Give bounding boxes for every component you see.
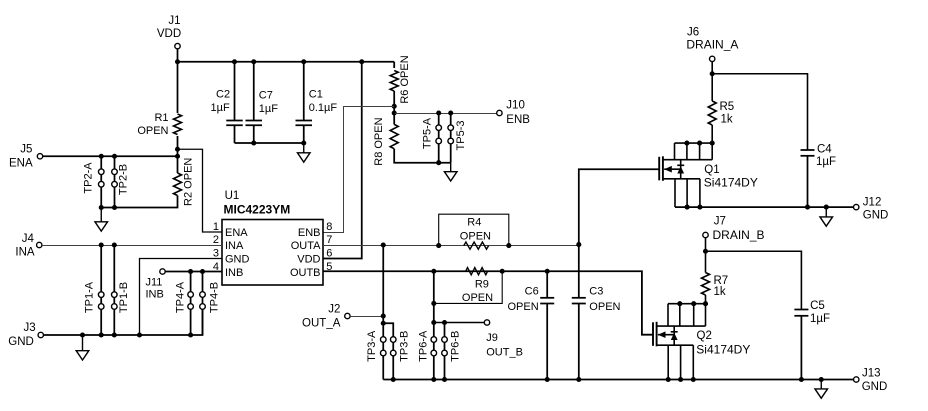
svg-text:J13: J13 bbox=[862, 368, 881, 380]
node J7 bbox=[703, 249, 708, 254]
connector J12 GND bbox=[854, 197, 889, 222]
svg-text:DRAIN_A: DRAIN_A bbox=[686, 38, 738, 52]
svg-text:GND: GND bbox=[8, 336, 34, 348]
node bus-C6 bbox=[545, 377, 550, 382]
node ENB-R6 bbox=[392, 104, 397, 109]
connector J7 DRAIN_B bbox=[703, 216, 765, 242]
svg-text:1µF: 1µF bbox=[810, 313, 830, 325]
node bus-TP6B bbox=[442, 377, 447, 382]
connector J2 OUT_A bbox=[302, 303, 350, 329]
svg-text:J4: J4 bbox=[22, 233, 35, 245]
testpoint TP3-B bbox=[390, 337, 396, 380]
wire VDD to R1 bbox=[177, 62, 179, 113]
node OUTB-C6 bbox=[545, 269, 550, 274]
ground below TP2 bbox=[95, 208, 108, 232]
svg-text:1: 1 bbox=[213, 221, 219, 233]
svg-text:ENA: ENA bbox=[9, 158, 33, 170]
svg-text:Si4174DY: Si4174DY bbox=[696, 342, 750, 356]
wire J6 to C4 bbox=[712, 74, 807, 150]
node INA-TP1A bbox=[99, 242, 104, 247]
node ENA-TP2A bbox=[99, 154, 104, 159]
node R9-box-TP6 bbox=[431, 301, 436, 306]
svg-text:TP2-A: TP2-A bbox=[82, 162, 94, 194]
svg-text:GND: GND bbox=[863, 210, 889, 222]
svg-text:TP1-A: TP1-A bbox=[84, 281, 96, 313]
node TP2A-gnd bbox=[99, 205, 104, 210]
wire GND bus bbox=[44, 309, 203, 335]
node OUTA-TP3 bbox=[381, 242, 386, 247]
svg-text:OUT_A: OUT_A bbox=[302, 318, 341, 330]
node Q2-rail-3 bbox=[703, 301, 708, 306]
wire R8 leads bbox=[393, 113, 395, 124]
connector J6 DRAIN_A bbox=[686, 27, 738, 62]
resistor R1 bbox=[174, 114, 182, 135]
transistor Q1 Si4174DY bbox=[659, 143, 712, 207]
svg-text:ENA: ENA bbox=[225, 227, 248, 239]
svg-text:R5: R5 bbox=[720, 101, 735, 113]
connector J1 VDD bbox=[157, 15, 181, 49]
connector J4 INA bbox=[15, 233, 42, 259]
svg-text:OUTB: OUTB bbox=[290, 267, 321, 279]
svg-text:2: 2 bbox=[213, 234, 219, 246]
svg-text:7: 7 bbox=[326, 234, 332, 246]
node VDD-C7 bbox=[251, 59, 256, 64]
svg-text:J3: J3 bbox=[24, 322, 36, 334]
wire OUTB row bbox=[323, 271, 653, 334]
node TP5-3 top bbox=[448, 110, 453, 115]
svg-text:TP3-B: TP3-B bbox=[398, 331, 410, 362]
node TP5-A bottom bbox=[436, 160, 441, 165]
node rail-gnd1 bbox=[824, 205, 829, 210]
node INA-TP1B bbox=[112, 242, 117, 247]
connector J5 ENA bbox=[9, 144, 43, 170]
resistor R9 bbox=[466, 268, 488, 275]
svg-text:U1: U1 bbox=[225, 190, 240, 202]
wire J7 to node bbox=[705, 238, 707, 273]
svg-text:C4: C4 bbox=[817, 144, 832, 156]
transistor Q2 Si4174DY bbox=[653, 304, 706, 380]
connector J3 GND bbox=[8, 322, 43, 348]
node INB-TP4A bbox=[188, 269, 193, 274]
wire INA row bbox=[42, 245, 222, 247]
node OUTB-R9R bbox=[500, 269, 505, 274]
wire J1 to VDD bus bbox=[177, 49, 179, 62]
svg-text:C6: C6 bbox=[525, 285, 539, 297]
svg-text:OPEN: OPEN bbox=[462, 292, 493, 304]
label R1 bbox=[137, 112, 168, 137]
testpoint TP4-B bbox=[200, 272, 206, 336]
svg-text:Q2: Q2 bbox=[697, 330, 712, 342]
node Q1-rail-2 bbox=[697, 141, 702, 146]
wire INB row bbox=[165, 271, 222, 273]
node VDD-C1 bbox=[301, 59, 306, 64]
testpoint TP2-A bbox=[98, 156, 104, 207]
op-amp U1 MIC4223YM box bbox=[222, 220, 323, 286]
svg-text:INA: INA bbox=[225, 240, 244, 252]
ground below TP5 bbox=[444, 163, 457, 181]
connector J13 GND bbox=[854, 368, 888, 394]
label Q1 bbox=[704, 164, 758, 190]
wire Q1 source rail bbox=[675, 206, 854, 208]
svg-text:C1: C1 bbox=[309, 89, 323, 101]
node J9-TP6B bbox=[442, 320, 447, 325]
svg-text:Si4174DY: Si4174DY bbox=[704, 176, 758, 190]
svg-text:J10: J10 bbox=[506, 100, 525, 112]
svg-text:GND: GND bbox=[225, 253, 250, 265]
label R5 bbox=[720, 101, 735, 126]
svg-text:J7: J7 bbox=[714, 216, 726, 228]
node Q1-src-1 bbox=[685, 205, 690, 210]
node VDD-J1 bbox=[175, 59, 180, 64]
svg-text:6: 6 bbox=[326, 248, 332, 260]
node GND-TP4A bbox=[188, 332, 193, 337]
svg-text:TP5-A: TP5-A bbox=[421, 117, 433, 149]
wire J9 stub bbox=[434, 322, 485, 324]
node bus-C3 bbox=[576, 377, 581, 382]
svg-text:R7: R7 bbox=[714, 275, 729, 287]
svg-text:C7: C7 bbox=[259, 90, 273, 102]
testpoint TP3-A bbox=[380, 337, 386, 380]
svg-text:R1: R1 bbox=[154, 112, 168, 124]
wire J2 stub bbox=[350, 316, 383, 318]
svg-text:C3: C3 bbox=[589, 285, 603, 297]
label R4 bbox=[460, 217, 491, 243]
svg-text:TP1-B: TP1-B bbox=[118, 282, 130, 313]
node VDD-pin6 bbox=[359, 59, 364, 64]
resistor R5 bbox=[708, 101, 716, 125]
node R4-left bbox=[436, 243, 441, 248]
node VDD-C2 bbox=[232, 59, 237, 64]
node Q1-rail-1 bbox=[684, 141, 689, 146]
wire J6 to node bbox=[711, 62, 713, 101]
capacitor C1 bbox=[296, 62, 338, 143]
svg-text:TP4-B: TP4-B bbox=[208, 282, 220, 313]
node bus-TP6A bbox=[431, 377, 436, 382]
capacitor C2 bbox=[211, 62, 243, 143]
svg-text:1µF: 1µF bbox=[211, 102, 230, 114]
wire R6 to node bbox=[393, 91, 395, 113]
node OUTB-R9L bbox=[431, 269, 436, 274]
ground below Q1 rail bbox=[820, 207, 833, 226]
node TP2B-gnd bbox=[112, 205, 117, 210]
svg-text:DRAIN_B: DRAIN_B bbox=[713, 228, 765, 242]
wire GND pin3 bbox=[140, 259, 223, 336]
svg-text:J9: J9 bbox=[486, 332, 498, 344]
wire ENB to J10 bbox=[394, 113, 497, 115]
node C1-bottom bbox=[301, 140, 306, 145]
jumper box R9 bbox=[434, 271, 502, 303]
label R9 bbox=[462, 279, 493, 305]
testpoint TP2-B bbox=[112, 156, 118, 207]
svg-text:Q1: Q1 bbox=[704, 164, 719, 176]
svg-text:1k: 1k bbox=[714, 286, 726, 298]
node bus-Q2src-1 bbox=[666, 377, 671, 382]
ground below Q2 bus bbox=[815, 380, 828, 399]
svg-text:R2 OPEN: R2 OPEN bbox=[183, 158, 195, 206]
connector J11 INB bbox=[146, 269, 166, 301]
node GND-TP1B bbox=[112, 332, 117, 337]
svg-text:VDD: VDD bbox=[157, 28, 181, 40]
resistor R6 bbox=[390, 71, 398, 92]
node GND-sym bbox=[80, 332, 85, 337]
svg-text:ENB: ENB bbox=[506, 114, 530, 126]
svg-text:OPEN: OPEN bbox=[508, 301, 539, 313]
svg-text:R8 OPEN: R8 OPEN bbox=[373, 117, 385, 165]
svg-text:R4: R4 bbox=[467, 217, 481, 229]
svg-text:TP5-3: TP5-3 bbox=[455, 121, 467, 151]
svg-text:J2: J2 bbox=[328, 303, 340, 315]
svg-text:R9: R9 bbox=[475, 279, 489, 291]
wire R9 box left / TP6 feed bbox=[433, 271, 435, 322]
node GND-TP1A bbox=[99, 332, 104, 337]
node ENA-TP2B bbox=[112, 154, 117, 159]
wire ENA row bbox=[43, 155, 178, 157]
wire R1 to ENA node bbox=[177, 136, 179, 156]
wire R5 to Q1 drain rail bbox=[711, 125, 713, 143]
svg-text:1µF: 1µF bbox=[816, 156, 836, 168]
svg-text:INB: INB bbox=[146, 289, 164, 301]
node GND-pin3 bbox=[137, 332, 142, 337]
resistor R7 bbox=[702, 273, 710, 296]
svg-text:8: 8 bbox=[326, 221, 332, 233]
wire R7 to Q2 drain rail bbox=[705, 295, 707, 304]
svg-text:C5: C5 bbox=[810, 300, 825, 312]
testpoint TP6-A bbox=[431, 323, 437, 380]
jumper box R4 bbox=[439, 214, 509, 245]
svg-text:3: 3 bbox=[213, 248, 219, 260]
node bus-TP3B bbox=[391, 377, 396, 382]
svg-text:TP3-A: TP3-A bbox=[366, 330, 378, 362]
svg-text:INB: INB bbox=[225, 267, 243, 279]
svg-text:J12: J12 bbox=[863, 197, 882, 209]
wire J7 to C5 bbox=[706, 251, 802, 309]
wire OUT_A drop bbox=[382, 245, 384, 340]
node ENB-TP5 bbox=[392, 110, 397, 115]
node C7-bottom bbox=[251, 140, 256, 145]
svg-text:TP4-A: TP4-A bbox=[175, 281, 187, 313]
wire OUTA riser to Q1 gate bbox=[579, 169, 659, 245]
wire VDD to pin6 bbox=[323, 62, 362, 259]
node bus-C5 bbox=[799, 377, 804, 382]
testpoint TP4-A bbox=[188, 272, 194, 336]
node Q1-src-2 bbox=[697, 205, 702, 210]
svg-text:TP6-A: TP6-A bbox=[418, 330, 430, 362]
svg-text:OPEN: OPEN bbox=[460, 230, 491, 242]
wire R2 bottom to TP2 bbox=[101, 196, 177, 208]
node J9-TP6A bbox=[431, 320, 436, 325]
svg-text:0.1µF: 0.1µF bbox=[309, 102, 338, 114]
testpoint TP6-B bbox=[442, 337, 448, 380]
node bus-Q2src-3 bbox=[691, 377, 696, 382]
connector J9 OUT_B bbox=[484, 320, 523, 359]
svg-text:1k: 1k bbox=[721, 114, 733, 126]
wire TP3-B branch bbox=[383, 323, 393, 336]
node Q1-rail-3 bbox=[710, 141, 715, 146]
wire OUTA row bbox=[323, 245, 579, 247]
testpoint TP5-A bbox=[436, 113, 442, 163]
svg-text:TP2-B: TP2-B bbox=[118, 164, 130, 195]
capacitor C5 bbox=[794, 300, 830, 379]
node Q2-rail-2 bbox=[691, 301, 696, 306]
svg-text:C2: C2 bbox=[216, 89, 230, 101]
node INB-TP4B bbox=[200, 269, 205, 274]
svg-text:MIC4223YM: MIC4223YM bbox=[224, 203, 291, 217]
svg-text:INA: INA bbox=[15, 247, 35, 259]
capacitor C7 bbox=[246, 62, 279, 143]
svg-text:R6 OPEN: R6 OPEN bbox=[399, 55, 411, 103]
svg-text:OPEN: OPEN bbox=[589, 301, 620, 313]
node R4-right bbox=[506, 243, 511, 248]
svg-text:J5: J5 bbox=[20, 144, 32, 156]
testpoint TP1-B bbox=[112, 245, 118, 335]
testpoint TP5-3 bbox=[448, 113, 454, 163]
node J6 bbox=[710, 71, 715, 76]
capacitor C3 bbox=[572, 245, 621, 380]
svg-text:J1: J1 bbox=[168, 15, 180, 27]
svg-text:OUTA: OUTA bbox=[291, 240, 321, 252]
node R1-ENA-b bbox=[175, 154, 180, 159]
testpoint TP1-A bbox=[98, 245, 104, 335]
svg-text:J6: J6 bbox=[687, 27, 699, 39]
capacitor C6 bbox=[508, 271, 555, 379]
connector J10 ENB bbox=[497, 100, 531, 126]
node rail-C4 bbox=[805, 205, 810, 210]
svg-text:TP6-B: TP6-B bbox=[450, 331, 462, 362]
ground below J3 bus bbox=[76, 335, 89, 360]
node R1-ENA-a bbox=[175, 147, 180, 152]
svg-text:ENB: ENB bbox=[298, 227, 321, 239]
resistor R4 bbox=[464, 242, 489, 249]
wire VDD bus to R6 bbox=[393, 62, 395, 68]
resistor R8 bbox=[390, 124, 398, 148]
label R7 bbox=[714, 275, 729, 298]
node Q2-rail-1 bbox=[677, 301, 682, 306]
svg-text:OPEN: OPEN bbox=[137, 125, 168, 137]
node OUTA-C3 bbox=[576, 242, 581, 247]
node OUTA-TP3B bbox=[381, 321, 386, 326]
capacitor C4 bbox=[801, 144, 837, 208]
wire TP6-B drop bbox=[444, 323, 446, 337]
svg-text:VDD: VDD bbox=[297, 253, 320, 265]
wire VDD bus bbox=[178, 61, 395, 63]
node bus-gnd2 bbox=[819, 377, 824, 382]
wire ENA to pin1 bbox=[178, 149, 223, 232]
svg-text:GND: GND bbox=[862, 381, 888, 393]
svg-text:OUT_B: OUT_B bbox=[486, 347, 523, 359]
resistor R2 bbox=[174, 173, 182, 196]
label Q2 bbox=[696, 330, 750, 356]
ground below C1 bbox=[297, 143, 310, 162]
svg-text:J11: J11 bbox=[146, 276, 163, 288]
svg-text:1µF: 1µF bbox=[259, 103, 278, 115]
wire ENB pin8 run bbox=[323, 107, 394, 233]
node TP5-A top bbox=[436, 110, 441, 115]
wire bottom GND bus bbox=[383, 379, 853, 381]
wire capacitor bottoms bbox=[235, 142, 304, 144]
node bus-Q2src-2 bbox=[678, 377, 683, 382]
node OUTA-J2 bbox=[381, 313, 386, 318]
wire R2 top bbox=[177, 156, 179, 173]
